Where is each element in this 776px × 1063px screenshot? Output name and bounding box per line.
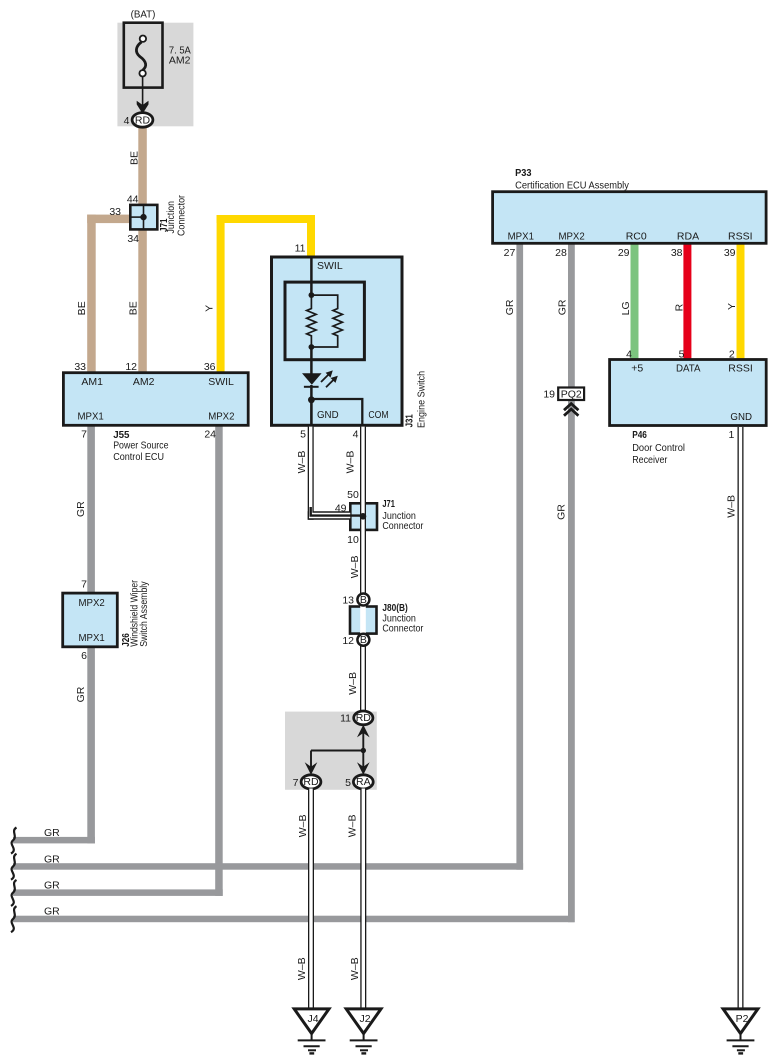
svg-text:27: 27 — [504, 247, 516, 259]
wire GR bar2 — [13, 863, 523, 870]
svg-text:DATA: DATA — [676, 363, 701, 375]
node 5 RA — [353, 775, 373, 789]
svg-text:P33: P33 — [515, 167, 532, 179]
svg-text:J31: J31 — [404, 414, 416, 427]
svg-text:10: 10 — [347, 534, 359, 546]
svg-text:5: 5 — [345, 777, 351, 789]
arrow down to node 5 — [362, 751, 364, 769]
wire GND internal — [310, 400, 313, 426]
svg-text:Door Control: Door Control — [632, 442, 685, 454]
svg-text:Y: Y — [204, 305, 216, 312]
wire W-B COM pin4 down column — [360, 427, 366, 713]
svg-text:P46: P46 — [632, 429, 647, 441]
svg-text:RC0: RC0 — [626, 230, 647, 242]
svg-text:GR: GR — [504, 299, 516, 315]
svg-text:Control ECU: Control ECU — [113, 451, 164, 463]
svg-text:BE: BE — [76, 301, 88, 315]
connector PQ2 — [558, 388, 584, 401]
P46 box — [610, 360, 767, 426]
P33 box — [493, 192, 766, 244]
svg-text:AM2: AM2 — [169, 54, 191, 66]
svg-text:4: 4 — [626, 348, 632, 360]
svg-text:MPX1: MPX1 — [78, 411, 104, 423]
ground J2 — [346, 1009, 381, 1054]
svg-text:W–B: W–B — [296, 957, 308, 980]
squiggle bar3 — [11, 880, 17, 906]
wire to LED — [310, 347, 313, 374]
wire LG P33 RC0 to P46 — [631, 242, 639, 361]
arrow from fuse — [142, 77, 144, 106]
terminal B (13) — [357, 594, 369, 606]
svg-text:SWIL: SWIL — [317, 260, 343, 272]
wire BE J71 left branch horizontal — [87, 215, 138, 224]
arrow down to node 7 — [310, 751, 312, 769]
svg-text:4: 4 — [353, 429, 359, 441]
node 7 RD — [301, 775, 321, 789]
svg-text:Connector: Connector — [382, 520, 423, 532]
svg-text:39: 39 — [724, 247, 736, 259]
svg-text:24: 24 — [204, 428, 216, 440]
svg-text:J2: J2 — [359, 1013, 370, 1025]
svg-text:12: 12 — [125, 361, 137, 373]
svg-text:29: 29 — [618, 247, 630, 259]
svg-text:34: 34 — [127, 233, 139, 245]
svg-text:33: 33 — [109, 206, 121, 218]
svg-text:GR: GR — [44, 853, 60, 865]
svg-text:LG: LG — [620, 301, 632, 315]
svg-text:AM1: AM1 — [81, 376, 103, 388]
svg-text:49: 49 — [335, 502, 347, 514]
engine switch J31 box — [272, 257, 403, 425]
wire GR bar4 — [13, 916, 575, 923]
svg-text:RSSI: RSSI — [728, 230, 753, 242]
wire Y down to J31 pin 11 — [307, 215, 315, 258]
shaded area bottom splice — [285, 712, 377, 790]
svg-text:1: 1 — [729, 429, 735, 441]
svg-text:PQ2: PQ2 — [561, 388, 582, 400]
svg-text:7: 7 — [293, 777, 299, 789]
svg-text:GND: GND — [730, 411, 752, 423]
svg-text:B: B — [360, 634, 367, 646]
wire BE J71 to J55 AM2 — [138, 229, 147, 374]
svg-text:GR: GR — [44, 906, 60, 918]
svg-text:44: 44 — [127, 193, 139, 205]
svg-text:5: 5 — [300, 429, 306, 441]
squiggle bar2 — [11, 854, 17, 880]
wire Y P33 RSSI to P46 — [737, 242, 745, 361]
wire GR J55 pin7 to J26 — [87, 424, 95, 594]
resistor inner box — [285, 282, 364, 360]
svg-text:MPX1: MPX1 — [79, 632, 105, 644]
resistor left — [307, 295, 316, 347]
svg-text:Engine Switch: Engine Switch — [416, 371, 428, 428]
svg-text:19: 19 — [543, 389, 555, 401]
svg-text:Connector: Connector — [176, 195, 188, 236]
svg-text:Switch Assembly: Switch Assembly — [138, 581, 150, 647]
svg-text:SWIL: SWIL — [208, 376, 234, 388]
svg-text:7: 7 — [81, 429, 87, 441]
svg-text:MPX2: MPX2 — [79, 597, 105, 609]
junction connector J80(B) — [350, 605, 377, 635]
svg-text:RA: RA — [356, 776, 371, 788]
node 4 RD — [132, 113, 153, 128]
svg-text:P2: P2 — [736, 1013, 749, 1025]
svg-text:Connector: Connector — [382, 622, 423, 634]
svg-text:GR: GR — [75, 501, 87, 517]
svg-text:R: R — [674, 303, 686, 311]
svg-text:MPX1: MPX1 — [508, 230, 534, 242]
wire Y horizontal — [217, 215, 315, 223]
svg-text:B: B — [360, 594, 367, 606]
svg-text:Y: Y — [726, 303, 738, 310]
svg-text:Certification ECU Assembly: Certification ECU Assembly — [515, 180, 629, 192]
svg-text:50: 50 — [347, 489, 359, 501]
svg-text:W–B: W–B — [349, 957, 361, 980]
shield chevrons — [564, 404, 578, 411]
svg-text:RDA: RDA — [677, 230, 699, 242]
wire GR P33 MPX1 down — [516, 242, 523, 870]
wire BE left vertical to J55 AM1 — [87, 215, 96, 374]
svg-text:36: 36 — [204, 361, 216, 373]
svg-text:W–B: W–B — [349, 556, 361, 579]
node top dot — [309, 292, 315, 298]
svg-text:W–B: W–B — [726, 495, 738, 518]
svg-text:AM2: AM2 — [133, 376, 155, 388]
junction connector J71 (middle) — [350, 503, 377, 530]
svg-text:W–B: W–B — [347, 672, 359, 695]
svg-text:2: 2 — [729, 348, 735, 360]
wire Y J55 SWIL vertical — [217, 215, 225, 374]
ground J4 — [294, 1009, 329, 1054]
svg-text:RD: RD — [303, 776, 319, 788]
svg-text:+5: +5 — [631, 363, 643, 375]
svg-text:MPX2: MPX2 — [208, 411, 234, 423]
svg-text:7: 7 — [81, 579, 87, 591]
svg-text:5: 5 — [679, 348, 685, 360]
svg-text:COM: COM — [368, 409, 388, 421]
wire W-B node5 to ground J2 — [360, 789, 366, 1010]
svg-text:J4: J4 — [307, 1013, 318, 1025]
fuse shading area — [117, 23, 193, 127]
wire GR J26 pin6 down — [87, 646, 95, 843]
svg-text:RSSI: RSSI — [728, 363, 753, 375]
svg-text:11: 11 — [340, 713, 351, 725]
svg-text:GR: GR — [44, 827, 60, 839]
wire GR bar1 — [13, 837, 95, 844]
svg-text:11: 11 — [295, 242, 306, 254]
svg-text:BE: BE — [127, 301, 139, 315]
arrow up to node 11 — [357, 725, 370, 738]
svg-text:6: 6 — [81, 650, 87, 662]
wire GR P33 MPX2 down — [568, 242, 575, 922]
node bottom dot — [309, 344, 315, 350]
svg-text:(BAT): (BAT) — [131, 9, 156, 21]
squiggle bar1 — [11, 828, 17, 854]
wire W-B GND pin5 to J71 pin49 — [308, 427, 314, 520]
svg-text:RD: RD — [135, 114, 151, 126]
svg-text:Power Source: Power Source — [113, 440, 168, 452]
wire W-B P46 GND to ground P2 — [738, 427, 744, 1010]
wire BE fuse to J71 — [138, 126, 147, 206]
wire COM internal — [311, 399, 362, 425]
svg-text:RD: RD — [356, 712, 372, 724]
LED arrows — [321, 374, 329, 382]
svg-text:W–B: W–B — [297, 815, 309, 838]
ground P2 — [723, 1009, 758, 1054]
squiggle bar4 — [11, 906, 17, 932]
svg-text:38: 38 — [671, 247, 683, 259]
svg-text:W–B: W–B — [345, 451, 357, 474]
svg-text:BE: BE — [128, 151, 140, 165]
svg-text:GR: GR — [44, 880, 60, 892]
wire GR J55 pin24 down — [215, 424, 223, 896]
wire W-B node7 to ground J4 — [308, 789, 314, 1010]
node 11 RD — [354, 711, 373, 725]
svg-text:13: 13 — [342, 595, 354, 607]
LED — [302, 373, 322, 385]
wire splice horizontal — [311, 750, 363, 752]
svg-text:J71: J71 — [382, 498, 395, 510]
svg-text:GR: GR — [556, 299, 568, 315]
junction connector J71 (top) — [130, 205, 157, 230]
svg-text:33: 33 — [74, 361, 86, 373]
svg-text:GND: GND — [317, 409, 339, 421]
svg-text:12: 12 — [342, 635, 354, 647]
splice dot — [361, 748, 366, 753]
svg-text:GR: GR — [556, 504, 568, 520]
svg-text:28: 28 — [555, 247, 567, 259]
wire SWIL internal — [310, 257, 313, 295]
svg-text:MPX2: MPX2 — [558, 230, 584, 242]
fuse box (7.5A AM2) — [124, 23, 163, 88]
terminal B (12) — [357, 634, 369, 646]
svg-text:W–B: W–B — [347, 815, 359, 838]
resistor right — [311, 295, 342, 347]
ECU J55 box — [63, 373, 248, 426]
svg-text:Receiver: Receiver — [632, 454, 668, 466]
J71 middle dot and pin49 line — [311, 507, 363, 516]
wire GR bar3 — [13, 889, 223, 896]
svg-text:4: 4 — [124, 115, 130, 127]
svg-text:GR: GR — [75, 686, 87, 702]
wiper switch J26 box — [63, 593, 118, 647]
LED to GND node — [310, 385, 313, 400]
svg-text:W–B: W–B — [296, 451, 308, 474]
wire R P33 RDA to P46 — [683, 242, 691, 361]
